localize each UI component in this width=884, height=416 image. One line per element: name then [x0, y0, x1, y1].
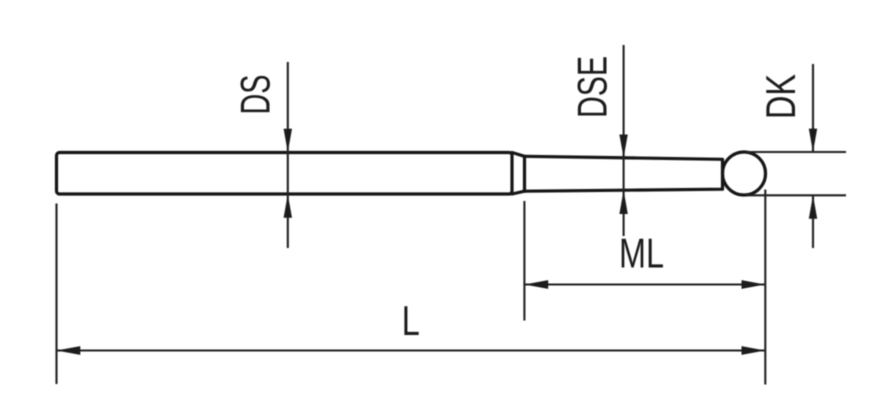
taper between stem and extension — [512, 153, 525, 195]
dimension DK line upper — [812, 64, 814, 152]
DSE arrow down — [619, 135, 627, 158]
ML arrow left — [524, 280, 548, 289]
right extension line (shared ML and L) — [764, 190, 766, 385]
L extension line left — [55, 204, 57, 385]
svg-text:DS: DS — [231, 75, 278, 115]
L arrow right — [742, 346, 766, 355]
DS arrow down — [284, 129, 292, 153]
DK extension line bottom tangent — [746, 194, 846, 196]
ball tip — [723, 152, 766, 195]
svg-text:ML: ML — [619, 230, 664, 277]
dimension ML line — [524, 283, 765, 285]
svg-text:DK: DK — [757, 74, 804, 119]
dimension L line — [57, 349, 766, 351]
dimension DSE line — [623, 45, 625, 236]
svg-text:DSE: DSE — [569, 56, 616, 118]
DK extension line top tangent — [746, 151, 846, 153]
DS arrow up — [284, 194, 292, 218]
ML arrow right — [742, 280, 766, 289]
dimension DS line — [287, 62, 289, 248]
extension shaft (cone) — [525, 156, 723, 191]
DSE arrow up — [619, 190, 627, 214]
DK arrow down — [809, 129, 817, 152]
svg-text:L: L — [402, 297, 420, 344]
L arrow left — [57, 346, 81, 355]
stylus stem (shaft) — [57, 153, 513, 195]
ML extension line left — [523, 201, 525, 321]
dimension DK line lower — [812, 195, 814, 248]
DK arrow up — [809, 195, 817, 219]
